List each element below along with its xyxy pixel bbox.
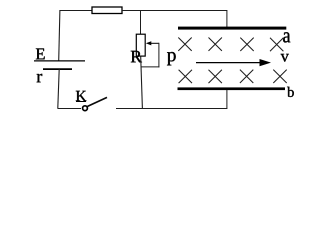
rheostat R slider arrowhead bbox=[146, 41, 152, 45]
label p bbox=[167, 52, 176, 65]
rheostat slider bracket wire (bottom, back to main wire) bbox=[141, 66, 160, 68]
rheostat slider bracket wire (right side down) bbox=[158, 43, 160, 68]
plate b (bottom plate) bbox=[178, 87, 286, 90]
rheostat R body bbox=[136, 34, 145, 56]
velocity arrow v shaft bbox=[196, 62, 261, 64]
rheostat R slider arrow shaft bbox=[150, 42, 160, 44]
wire rheostat branch lower (rheostat to bottom wire) bbox=[141, 56, 143, 108]
magnetic field cross row1 col3 bbox=[240, 38, 253, 51]
wire left vertical lower (battery to bottom wire) bbox=[58, 69, 59, 108]
wire top plate stub bbox=[226, 11, 228, 28]
label r bbox=[37, 74, 42, 82]
plate a (top plate) bbox=[178, 27, 286, 30]
switch K blade (open) bbox=[88, 97, 108, 106]
magnetic field cross row2 col1 bbox=[179, 70, 192, 83]
battery E (long plate) bbox=[34, 60, 85, 62]
label K underline bbox=[76, 101, 86, 103]
wire bottom-left (corner to switch) bbox=[57, 108, 81, 110]
magnetic field cross row2 col3 bbox=[240, 70, 253, 83]
magnetic field cross row1 col4 bbox=[270, 38, 283, 51]
wire top horizontal (resistor to plate stub) bbox=[122, 10, 227, 12]
magnetic field cross row1 col2 bbox=[209, 38, 222, 51]
label v bbox=[281, 54, 289, 62]
magnetic field cross row1 col1 bbox=[178, 38, 191, 51]
wire top-left horizontal (corner to resistor) bbox=[60, 10, 93, 12]
wire bottom plate stub bbox=[226, 90, 228, 109]
label b bbox=[287, 87, 294, 97]
wire rheostat branch upper (top wire to rheostat) bbox=[140, 11, 142, 35]
wire bottom horizontal (switch to plate stub) bbox=[116, 108, 227, 110]
resistor (fixed, unlabeled) bbox=[92, 7, 122, 14]
battery E (short plate, internal resistance r) bbox=[43, 68, 72, 70]
label R bbox=[131, 51, 142, 62]
label E bbox=[36, 49, 45, 60]
label K bbox=[76, 91, 87, 101]
magnetic field cross row2 col4 bbox=[273, 70, 286, 83]
magnetic field cross row2 col2 bbox=[209, 70, 222, 83]
velocity arrow v head bbox=[260, 59, 272, 66]
switch K hinge circle bbox=[83, 106, 88, 111]
label a bbox=[283, 32, 290, 42]
wire left vertical upper (corner to battery) bbox=[59, 10, 60, 61]
